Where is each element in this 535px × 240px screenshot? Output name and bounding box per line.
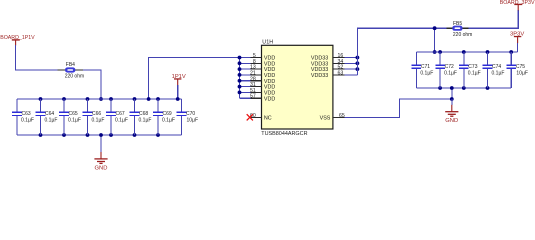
pin 65 VSS: [320, 113, 345, 122]
svg-text:C68: C68: [139, 111, 148, 117]
svg-text:FB5: FB5: [453, 21, 462, 27]
svg-text:0.1µF: 0.1µF: [115, 118, 128, 124]
op-amp U1H body: [261, 39, 333, 137]
capacitor C68: [130, 97, 152, 137]
capacitor C69: [153, 97, 175, 137]
wire FB5 drop to 3P3V rail: [434, 28, 436, 52]
svg-text:C73: C73: [468, 64, 477, 70]
capacitor C63: [12, 99, 34, 135]
svg-text:57: 57: [250, 94, 256, 100]
wire GND tap down: [451, 99, 453, 105]
wire 1P1V bottom rail (GND side): [17, 134, 182, 136]
svg-text:C74: C74: [492, 64, 501, 70]
ferrite bead FB4: [58, 62, 85, 80]
svg-text:TUSB8044ARGCR: TUSB8044ARGCR: [261, 131, 307, 137]
svg-text:0.1µF: 0.1µF: [139, 118, 152, 124]
wire 3P3V top rail: [416, 51, 517, 53]
pin 51 VDD: [238, 88, 276, 97]
capacitor C64: [36, 97, 58, 137]
ground GND (right): [445, 105, 458, 124]
wire 3P3V bottom rail: [416, 87, 511, 89]
capacitor C70: [177, 99, 198, 135]
wire FB5 to BOARD_3P3V: [468, 10, 518, 28]
svg-text:C64: C64: [45, 111, 54, 117]
pin 57 VDD: [240, 94, 276, 103]
capacitor C66: [83, 97, 105, 137]
wire 1P1V top rail: [17, 98, 182, 100]
svg-text:220 ohm: 220 ohm: [453, 32, 472, 38]
pin 31 VDD: [238, 82, 276, 91]
svg-text:C75: C75: [516, 64, 525, 70]
svg-text:0.1µF: 0.1µF: [444, 71, 457, 77]
pin 5 VDD: [238, 53, 276, 62]
capacitor C74: [483, 50, 505, 90]
svg-text:0.1µF: 0.1µF: [420, 71, 433, 77]
svg-text:C67: C67: [116, 111, 125, 117]
svg-text:C70: C70: [186, 111, 195, 117]
capacitor C71: [412, 52, 434, 88]
pin 21 VDD: [238, 70, 276, 79]
svg-text:0.1µF: 0.1µF: [162, 118, 175, 124]
capacitor C75: [506, 50, 528, 88]
ground GND (left): [94, 152, 107, 171]
svg-text:0.1µF: 0.1µF: [468, 71, 481, 77]
pin 13 VDD: [238, 65, 276, 74]
svg-text:VDD33: VDD33: [311, 73, 328, 79]
svg-text:GND: GND: [95, 165, 108, 170]
power symbol 3P3V: [510, 31, 524, 52]
pin 52 VDD33: [311, 65, 359, 74]
svg-text:0.1µF: 0.1µF: [492, 71, 505, 77]
svg-text:C65: C65: [69, 111, 78, 117]
node junction rail/bus riser: [147, 97, 151, 101]
capacitor C67: [106, 97, 128, 137]
wire bottom rail to GND: [100, 135, 102, 152]
power symbol 1P1V: [172, 74, 186, 101]
power symbol BOARD_1P1V: [0, 35, 35, 45]
wire FB4 to cap rail: [83, 70, 101, 99]
svg-text:VDD: VDD: [264, 96, 275, 102]
capacitor C65: [59, 97, 81, 137]
svg-text:10µF: 10µF: [516, 71, 528, 77]
svg-text:FB4: FB4: [66, 62, 75, 68]
svg-text:C69: C69: [163, 111, 172, 117]
svg-text:0.1µF: 0.1µF: [45, 118, 58, 124]
svg-text:U1H: U1H: [262, 39, 273, 45]
svg-text:NC: NC: [264, 115, 272, 121]
wire BOARD_1P1V to FB4: [16, 45, 58, 70]
wire VSS to GND net: [345, 99, 452, 117]
svg-text:VSS: VSS: [320, 115, 331, 121]
pin 8 VDD: [238, 59, 276, 68]
svg-text:C72: C72: [445, 64, 454, 70]
pin 63 VDD33: [311, 70, 357, 79]
capacitor C73: [459, 50, 481, 90]
wire 1P1V rail to U1H VDD bus: [149, 58, 240, 100]
power symbol BOARD_3P3V: [500, 0, 535, 10]
wire GND tap to bottom rail: [451, 88, 453, 99]
pin 34 VDD33: [311, 59, 359, 68]
svg-text:220 ohm: 220 ohm: [65, 74, 84, 80]
svg-text:C63: C63: [22, 111, 31, 117]
U1H left VDD bus: [239, 58, 241, 99]
svg-text:0.1µF: 0.1µF: [68, 118, 81, 124]
capacitor C72: [435, 50, 457, 90]
svg-text:63: 63: [338, 70, 344, 76]
node junction FB4 drop on 1P1V rail: [99, 97, 103, 101]
svg-text:C71: C71: [421, 64, 430, 70]
svg-text:10µF: 10µF: [187, 118, 199, 124]
pin 60 NC (no connect): [247, 113, 272, 122]
ferrite bead FB5: [447, 21, 473, 38]
wire VDD33 bus riser to FB5 line: [357, 28, 446, 75]
svg-text:C66: C66: [92, 111, 101, 117]
pin 16 VDD33: [311, 53, 359, 62]
pin 28 VDD: [238, 76, 276, 85]
svg-text:0.1µF: 0.1µF: [92, 118, 105, 124]
svg-text:0.1µF: 0.1µF: [21, 118, 34, 124]
svg-text:GND: GND: [445, 118, 458, 124]
svg-text:65: 65: [339, 113, 345, 119]
